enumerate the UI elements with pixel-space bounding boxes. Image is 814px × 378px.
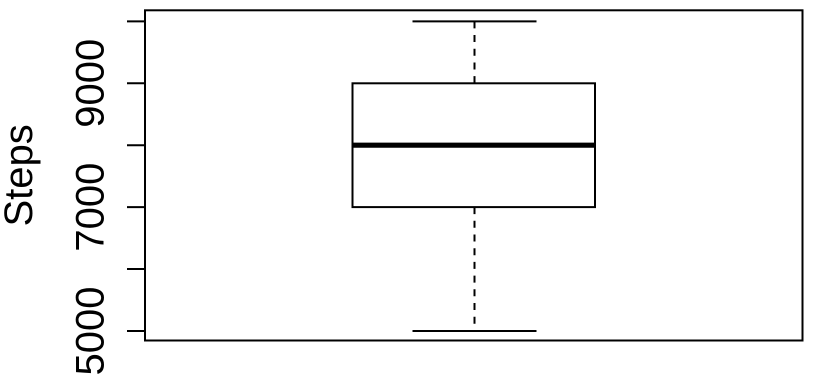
svg-text:Steps: Steps [0, 124, 41, 226]
plot frame [145, 10, 803, 340]
y-axis tick 5000 [127, 330, 145, 332]
svg-text:5000: 5000 [69, 287, 113, 376]
median line 8000 [353, 143, 596, 148]
upper whisker dashed line [474, 21, 476, 83]
y-axis tick 9000 [127, 82, 145, 84]
lower whisker cap (min 5000) [413, 330, 537, 332]
y-axis tick 10000 [127, 20, 145, 22]
IQR box (Q1 7000 to Q3 9000) [353, 83, 596, 207]
svg-text:9000: 9000 [69, 39, 113, 128]
upper whisker cap (max 10000) [413, 20, 537, 22]
y-axis tick 6000 [127, 268, 145, 270]
svg-text:7000: 7000 [69, 163, 113, 252]
lower whisker dashed line [474, 207, 476, 331]
y-axis tick 7000 [127, 206, 145, 208]
y-axis tick 8000 [127, 144, 145, 146]
